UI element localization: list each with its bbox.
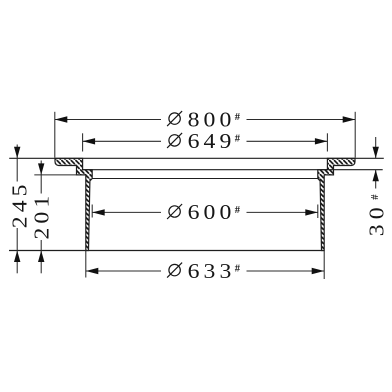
dim 600 line	[92, 211, 161, 213]
text dia 633	[167, 259, 241, 282]
dim 649 extension lines	[82, 133, 84, 151]
dim 633 extension lines	[85, 251, 87, 278]
bottom line	[9, 250, 324, 252]
dim 800 extension lines	[54, 112, 56, 158]
dim 649 line	[83, 140, 161, 142]
dim 600 extension stubs	[91, 205, 93, 218]
svg-text:#: #	[370, 194, 381, 200]
dim 633 line	[86, 270, 161, 272]
dim 30 vertical	[375, 137, 377, 158]
svg-text:#: #	[235, 205, 241, 216]
svg-text:#: #	[235, 134, 241, 145]
text dia 600	[167, 200, 241, 223]
seat line (also 30 dim extension)	[83, 169, 383, 171]
dim 800 line	[55, 119, 161, 121]
text dia 649	[167, 129, 241, 152]
ground line	[9, 157, 384, 159]
dim 245 vertical	[16, 145, 18, 182]
svg-text:633: 633	[188, 259, 236, 282]
inner edge line	[92, 178, 318, 180]
svg-text:#: #	[235, 112, 241, 123]
text dia 800	[167, 108, 241, 131]
svg-text:201: 201	[30, 192, 53, 240]
svg-text:600: 600	[188, 200, 236, 223]
svg-text:#: #	[235, 263, 241, 274]
right frame section (hatched)	[318, 158, 355, 250]
left frame section (hatched)	[55, 158, 92, 250]
svg-text:245: 245	[8, 180, 31, 228]
svg-text:649: 649	[188, 129, 236, 152]
dim 201 vertical + datum line	[34, 174, 77, 176]
svg-text:30: 30	[365, 202, 388, 236]
svg-text:800: 800	[188, 108, 236, 131]
